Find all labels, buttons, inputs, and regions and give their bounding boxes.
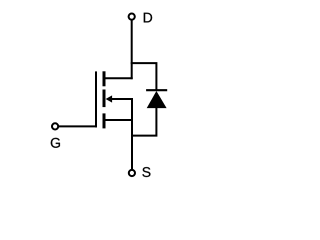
- transistor Q1 bottom channel bar (source): [103, 113, 106, 128]
- wire drain to top bar: [105, 77, 133, 79]
- label S: [142, 167, 150, 177]
- wire gate horizontal: [58, 125, 97, 127]
- wire body arrow tail and source vertical: [112, 99, 133, 170]
- transistor Q1 middle channel bar (body): [103, 90, 106, 108]
- wire bottom bar to source vertical: [105, 119, 133, 121]
- wire diode anode to source node: [131, 108, 156, 136]
- label G: [51, 138, 60, 148]
- transistor Q1 body arrow: [106, 95, 113, 102]
- transistor Q1 top channel bar (drain): [103, 71, 106, 86]
- terminal D circle: [129, 14, 135, 20]
- diode D1 cathode bar: [146, 89, 167, 91]
- wire drain branch to diode: [131, 63, 157, 90]
- terminal G circle: [52, 123, 58, 129]
- diode D1 anode triangle: [147, 91, 167, 108]
- terminal S circle: [129, 170, 135, 176]
- wire drain vertical: [131, 20, 133, 79]
- transistor Q1 gate line: [95, 71, 97, 127]
- label D: [144, 13, 152, 23]
